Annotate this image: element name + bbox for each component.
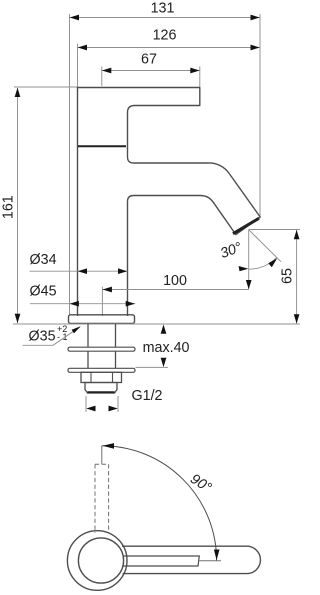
svg-text:100: 100 bbox=[163, 273, 187, 289]
plan view: outer circle bbox=[67, 531, 127, 591]
svg-text:126: 126 bbox=[153, 28, 177, 44]
svg-text:G1/2: G1/2 bbox=[132, 388, 163, 404]
label Ø35 +2/-1 with leader bbox=[23, 324, 81, 346]
svg-text:65: 65 bbox=[279, 268, 295, 284]
dimension G1/2 bbox=[86, 388, 163, 412]
svg-text:Ø35: Ø35 bbox=[29, 329, 56, 345]
reference line above dashed handle bbox=[101, 446, 103, 465]
dimension 100 bbox=[102, 273, 251, 292]
body seam line bbox=[78, 145, 126, 147]
dimension 126 bbox=[78, 28, 261, 51]
plan view: inner circle bbox=[78, 538, 123, 583]
extension line right (131/126, x=260) bbox=[259, 14, 261, 217]
dimension 161 (vertical) bbox=[1, 88, 21, 323]
svg-text:Ø45: Ø45 bbox=[30, 284, 57, 300]
svg-text:max.40: max.40 bbox=[143, 340, 190, 356]
30 degree angle leg diagonal bbox=[249, 230, 281, 262]
extension line 67 right bbox=[199, 67, 201, 88]
svg-text:30°: 30° bbox=[218, 239, 244, 262]
deck line bbox=[13, 323, 300, 325]
svg-text:67: 67 bbox=[141, 52, 157, 68]
svg-text:90°: 90° bbox=[187, 471, 214, 496]
extension line 65 top bbox=[249, 229, 300, 231]
dimension 131 bbox=[70, 1, 261, 21]
svg-text:131: 131 bbox=[151, 1, 175, 17]
backnut bbox=[81, 372, 122, 382]
threaded end G1/2 bbox=[85, 383, 117, 394]
extension line left (131, x=69.5) bbox=[69, 14, 71, 316]
arc arrowhead top bbox=[103, 443, 115, 449]
30 degree arc arrowheads bbox=[239, 266, 249, 271]
extension line 67 left bbox=[101, 67, 103, 87]
dimension Ø45 bbox=[30, 284, 136, 307]
shank middle bbox=[87, 351, 89, 368]
label max.40 bbox=[136, 325, 190, 368]
90 degree rotation arc bbox=[102, 446, 217, 561]
svg-text:161: 161 bbox=[1, 195, 17, 219]
washer 2 bbox=[68, 368, 135, 372]
reference line lever mid bbox=[199, 560, 221, 562]
dimension 67 bbox=[102, 52, 200, 74]
faucet body outline bbox=[78, 88, 261, 317]
30 degree angle arc bbox=[249, 258, 277, 270]
spout outlet face bbox=[233, 218, 259, 233]
thread end face bbox=[88, 391, 115, 393]
plan view: lever inner detail bbox=[122, 556, 199, 566]
extension line outlet vertical (100/30deg ref) bbox=[248, 230, 250, 290]
washer 1 bbox=[68, 347, 135, 351]
plan view: handle raised position (dashed) bbox=[95, 464, 109, 533]
mounting flange bbox=[69, 315, 135, 324]
dimension Ø34 bbox=[30, 252, 128, 274]
extension line 161 top bbox=[14, 86, 78, 88]
centerline body axis (100 ref) bbox=[101, 287, 103, 317]
dimension 65 (vertical right) bbox=[279, 230, 299, 324]
extension line 126 left bbox=[77, 44, 79, 88]
plan view: lever arm bbox=[122, 546, 260, 573]
shank upper bbox=[87, 324, 89, 347]
arc arrowhead bottom bbox=[214, 550, 220, 561]
svg-text:- 1: - 1 bbox=[57, 332, 68, 342]
svg-text:Ø34: Ø34 bbox=[30, 252, 57, 268]
